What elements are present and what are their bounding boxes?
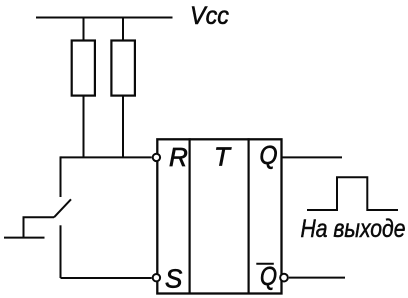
svg-text:На выходе: На выходе [301,215,406,243]
svg-text:R: R [169,142,188,172]
svg-text:Vcc: Vcc [190,2,229,30]
svg-text:Q: Q [260,261,277,291]
svg-text:S: S [165,263,183,293]
svg-text:Q: Q [260,140,278,170]
svg-text:T: T [214,142,232,172]
